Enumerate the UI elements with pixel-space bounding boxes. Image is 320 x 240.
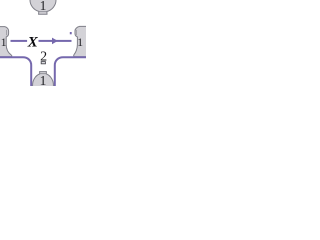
svg-text:1: 1 — [40, 0, 47, 13]
svg-text:1: 1 — [77, 35, 83, 49]
svg-text:1: 1 — [1, 35, 7, 49]
svg-text:1: 1 — [40, 73, 47, 86]
svg-text:2: 2 — [40, 50, 47, 65]
svg-text:X: X — [27, 34, 39, 50]
